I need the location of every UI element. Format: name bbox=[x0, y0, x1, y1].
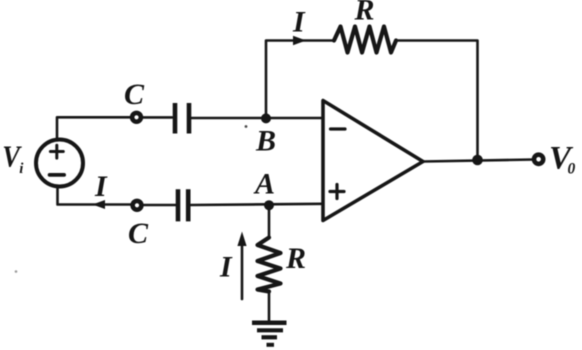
plus marking (source) bbox=[50, 145, 63, 158]
wire Vi bottom to terminal bbox=[58, 187, 132, 205]
svg-text:I: I bbox=[292, 6, 306, 39]
wire terminal to capacitor C top bbox=[143, 116, 172, 119]
wire Vi top to capacitor terminal bbox=[57, 117, 130, 140]
current arrow I (feedback) bbox=[293, 36, 306, 45]
node B bbox=[261, 113, 271, 123]
svg-text:C: C bbox=[124, 78, 145, 111]
svg-text:I: I bbox=[94, 170, 108, 203]
svg-text:0: 0 bbox=[568, 160, 576, 177]
capacitor C (top) bbox=[175, 103, 189, 134]
current arrow I (toward source) bbox=[93, 200, 106, 209]
wire capacitor to op-amp inverting input through node B bbox=[192, 117, 324, 120]
ground bbox=[252, 321, 287, 326]
resistor R (grounding) bbox=[258, 238, 281, 292]
wire node A down to resistor bbox=[268, 205, 271, 238]
svg-text:I: I bbox=[219, 251, 233, 284]
terminal Vo bbox=[534, 155, 543, 164]
svg-text:R: R bbox=[354, 0, 375, 27]
node (output junction) bbox=[472, 155, 483, 166]
svg-text:i: i bbox=[19, 161, 24, 177]
non-inverting input marking + bbox=[330, 185, 344, 199]
wire node B up to feedback path bbox=[266, 41, 334, 117]
speck bbox=[15, 270, 18, 273]
op-amp U1 bbox=[323, 101, 423, 221]
node A bbox=[264, 200, 274, 210]
svg-text:B: B bbox=[255, 124, 276, 157]
wire resistor to output junction bbox=[396, 41, 478, 156]
terminal C (bottom input) bbox=[133, 201, 142, 210]
terminal C (top input) bbox=[132, 113, 141, 122]
wire op-amp output bbox=[423, 160, 534, 162]
svg-text:C: C bbox=[128, 217, 149, 250]
resistor R (feedback) bbox=[334, 27, 396, 53]
svg-text:A: A bbox=[253, 168, 275, 201]
wire terminal to capacitor C bottom bbox=[144, 204, 176, 207]
svg-text:R: R bbox=[285, 242, 306, 275]
inverting input marking - bbox=[331, 127, 346, 130]
voltage source Vi bbox=[36, 140, 83, 187]
current arrow I (up through R) bbox=[241, 245, 244, 299]
wire resistor to ground bbox=[268, 292, 271, 323]
speck bbox=[245, 125, 248, 128]
capacitor C (bottom) bbox=[178, 189, 188, 221]
wire capacitor to op-amp non-inverting input through node A bbox=[191, 204, 323, 205]
minus marking (source) bbox=[50, 173, 65, 177]
